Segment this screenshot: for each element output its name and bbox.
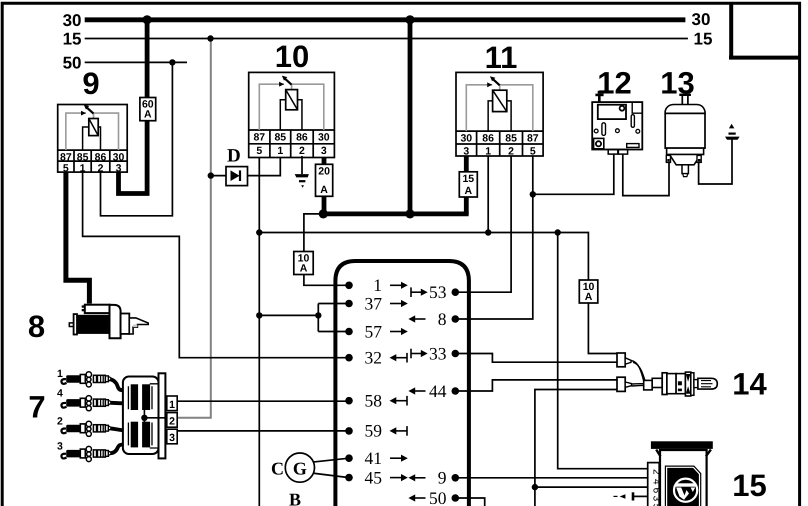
fuse 20A bbox=[316, 164, 333, 196]
svg-text:9: 9 bbox=[82, 66, 99, 101]
svg-text:58: 58 bbox=[365, 391, 383, 411]
svg-text:3: 3 bbox=[116, 162, 122, 174]
svg-text:C: C bbox=[271, 459, 284, 479]
svg-text:41: 41 bbox=[365, 448, 383, 468]
fuel pump 13 bbox=[665, 95, 705, 177]
bus 30 wire bbox=[85, 17, 686, 22]
generator signal G bbox=[285, 453, 349, 482]
svg-text:86: 86 bbox=[482, 132, 494, 144]
svg-text:D: D bbox=[227, 146, 241, 167]
wire ignition module pin 1 to ECU pin 58 bbox=[177, 400, 349, 402]
legend box top-right bbox=[729, 4, 800, 58]
wire relay 9 pin 85 to ECU pin 32 bbox=[83, 171, 349, 358]
svg-text:86: 86 bbox=[296, 131, 308, 143]
wire lambda heater return to connector 15 slot 6 bbox=[535, 390, 650, 506]
wire junction dots bbox=[169, 35, 561, 490]
ground (relay 10 pin 86) bbox=[295, 156, 309, 188]
wire feed to ECU pins 37 and 57 bbox=[259, 304, 349, 332]
svg-text:3: 3 bbox=[651, 496, 662, 502]
wire relay 9 pin 87 to starter motor bbox=[66, 171, 90, 304]
wire relay 11 pin 30 through fuse 15A to rail bbox=[464, 155, 469, 215]
ignition coil module 7 body bbox=[123, 373, 165, 458]
relay 10 (main injection relay) bbox=[249, 72, 335, 157]
wire ECU pin 33 to lambda sensor signal bbox=[455, 354, 617, 363]
ignition module coil windings bbox=[128, 384, 166, 448]
svg-text:59: 59 bbox=[365, 421, 383, 441]
svg-text:15: 15 bbox=[732, 468, 766, 503]
wire feed rail to connector 15 slot 2 bbox=[558, 233, 650, 469]
control unit 15 top banner bbox=[651, 441, 713, 449]
svg-text:11: 11 bbox=[485, 40, 518, 75]
svg-text:85: 85 bbox=[274, 131, 286, 143]
svg-text:1: 1 bbox=[373, 275, 382, 295]
svg-text:5: 5 bbox=[530, 145, 536, 157]
svg-text:6: 6 bbox=[651, 488, 662, 494]
wire ignition module pin 3 to ECU pin 59 bbox=[177, 430, 349, 432]
ECU pin 8 bbox=[408, 309, 459, 329]
svg-text:5: 5 bbox=[256, 145, 262, 157]
diode D bbox=[226, 167, 248, 186]
wire relay 11 pin 86 to feed rail bbox=[487, 155, 489, 233]
wire ECU pin 44 to lambda sensor signal return bbox=[455, 380, 617, 391]
svg-text:A: A bbox=[144, 109, 152, 121]
ignition module connector pin 1 bbox=[167, 396, 177, 411]
svg-text:1: 1 bbox=[169, 399, 175, 411]
svg-text:53: 53 bbox=[429, 282, 447, 302]
svg-text:2: 2 bbox=[508, 145, 514, 157]
svg-text:87: 87 bbox=[527, 132, 539, 144]
svg-text:33: 33 bbox=[429, 343, 447, 363]
svg-text:A: A bbox=[585, 291, 593, 303]
spark plug cylinder 4 bbox=[61, 396, 110, 411]
spark plug leads bbox=[109, 379, 124, 453]
svg-text:30: 30 bbox=[460, 132, 472, 144]
svg-text:30: 30 bbox=[692, 10, 711, 29]
svg-text:4: 4 bbox=[651, 479, 662, 485]
svg-text:30: 30 bbox=[63, 11, 82, 30]
control unit 15 body bbox=[656, 450, 711, 506]
svg-text:50: 50 bbox=[429, 488, 447, 506]
relay 11 (fuel pump relay) bbox=[456, 72, 543, 157]
lambda sensor 14 body bbox=[644, 372, 718, 396]
ignition module connector pin 3 bbox=[167, 429, 177, 444]
wire fuse 10A right to lambda heater terminal bbox=[588, 302, 617, 354]
fuse 10A (ECU supply) bbox=[294, 252, 313, 275]
wire relay 11 pin 85 to ECU pin 53 bbox=[455, 155, 511, 292]
thick wire junction dots bbox=[143, 15, 415, 218]
svg-text:3: 3 bbox=[463, 145, 469, 157]
ECU pin 1 bbox=[345, 275, 408, 295]
svg-text:15: 15 bbox=[462, 173, 474, 185]
svg-text:A: A bbox=[300, 262, 308, 274]
svg-text:B: B bbox=[289, 490, 301, 506]
spark plug cylinder 3 bbox=[61, 446, 110, 461]
ECU pin 58 bbox=[345, 391, 407, 411]
svg-text:45: 45 bbox=[365, 467, 383, 487]
wire relay 11 pin 87 to ECU pin 8 bbox=[455, 155, 533, 319]
wire bus30 central drop to supply rail bbox=[408, 20, 413, 214]
ECU pin 41 bbox=[345, 448, 408, 468]
fuse 60A bbox=[140, 98, 156, 121]
wire rail tap through fuse 10A left to ECU pin 1 bbox=[304, 214, 349, 285]
wire relay 10 pin 30 through fuse 20A to rail bbox=[322, 156, 327, 214]
svg-text:5: 5 bbox=[63, 162, 69, 174]
wire fuel pump 13 to ground bbox=[699, 139, 732, 184]
wire bus50 to relay 9 pin 86 bbox=[101, 62, 173, 215]
spark plug cylinder 1 bbox=[61, 372, 110, 387]
svg-text:37: 37 bbox=[365, 293, 383, 313]
svg-text:2: 2 bbox=[98, 162, 104, 174]
svg-text:A: A bbox=[465, 185, 473, 197]
ignition module connector pin 2 bbox=[167, 413, 177, 428]
svg-text:G: G bbox=[293, 458, 307, 478]
svg-text:32: 32 bbox=[365, 348, 383, 368]
ECU pin 57 bbox=[345, 321, 408, 341]
svg-text:15: 15 bbox=[63, 30, 82, 49]
wire ignition ECU 12 pin B to fuel pump 13 bbox=[623, 154, 669, 196]
lambda sensor 14 connector block upper bbox=[617, 353, 631, 367]
bus 50 wire bbox=[85, 61, 187, 63]
wire ECU pin 9 to connector 15 slot 4 bbox=[455, 477, 649, 479]
supply rail wire bbox=[323, 211, 468, 216]
ECU pin 53 bbox=[411, 282, 459, 302]
svg-text:13: 13 bbox=[660, 66, 694, 101]
bus 15 wire bbox=[85, 38, 688, 40]
svg-text:1: 1 bbox=[485, 145, 491, 157]
svg-text:57: 57 bbox=[365, 321, 383, 341]
svg-text:3: 3 bbox=[321, 145, 327, 157]
wire bus15 feed (gray) to diode and ignition module pin 2 bbox=[177, 39, 211, 418]
spark plug cylinder 2 bbox=[61, 421, 110, 436]
ECU pin 50 bbox=[408, 488, 459, 506]
wire bus30 to fuse 60A to relay 9 pin 30 bbox=[119, 20, 148, 194]
svg-text:3: 3 bbox=[57, 441, 63, 453]
svg-text:4: 4 bbox=[57, 388, 63, 400]
ECU pin 33 bbox=[411, 343, 459, 363]
fuse 10A (lambda heater) bbox=[579, 280, 598, 303]
svg-text:2: 2 bbox=[169, 415, 175, 427]
ECU pin 37 bbox=[345, 293, 408, 313]
svg-text:2: 2 bbox=[651, 469, 662, 475]
svg-text:14: 14 bbox=[732, 367, 767, 402]
svg-text:87: 87 bbox=[253, 131, 265, 143]
svg-text:2: 2 bbox=[57, 416, 63, 428]
ground (fuel pump circuit, top right) bbox=[725, 124, 740, 140]
svg-text:30: 30 bbox=[318, 131, 330, 143]
ECU connector M (engine control unit) bbox=[335, 261, 469, 506]
svg-text:12: 12 bbox=[597, 66, 631, 101]
svg-text:2: 2 bbox=[299, 145, 305, 157]
lambda sensor 14 harness wires bbox=[631, 361, 646, 387]
wire relay 10 pin 87 main feed (down) bbox=[258, 156, 260, 506]
wire relay 10 pin 87 feed rail to fuse 10A right bbox=[259, 233, 588, 282]
control unit 15 connector strip bbox=[648, 463, 662, 506]
ignition power module 12 bbox=[592, 91, 642, 154]
svg-text:1: 1 bbox=[57, 368, 63, 380]
wire ECU pin 50 down bbox=[455, 498, 484, 506]
svg-text:10: 10 bbox=[275, 39, 309, 74]
ECU pin 9 bbox=[408, 468, 459, 488]
svg-text:A: A bbox=[320, 184, 328, 196]
svg-text:1: 1 bbox=[80, 162, 86, 174]
svg-text:8: 8 bbox=[438, 309, 447, 329]
svg-text:1: 1 bbox=[277, 145, 283, 157]
svg-text:9: 9 bbox=[438, 468, 447, 488]
wire diode to relay 10 pin 85 bbox=[211, 156, 280, 176]
starter motor 8 bbox=[69, 305, 148, 339]
svg-text:3: 3 bbox=[169, 432, 175, 444]
svg-text:44: 44 bbox=[429, 381, 447, 401]
svg-text:85: 85 bbox=[505, 132, 517, 144]
svg-text:50: 50 bbox=[63, 53, 82, 72]
ECU pin 59 bbox=[345, 421, 407, 441]
ECU pin 45 bbox=[345, 467, 408, 487]
svg-text:7: 7 bbox=[28, 390, 45, 425]
connector 15 slot 3 stub wire bbox=[614, 492, 648, 500]
svg-text:15: 15 bbox=[694, 30, 713, 49]
fuse 15A bbox=[459, 172, 477, 197]
svg-text:20: 20 bbox=[318, 166, 330, 178]
relay 9 (starter relay) bbox=[58, 105, 128, 175]
svg-text:8: 8 bbox=[28, 309, 45, 344]
wire ignition ECU 12 pin A to relay 11 pin 87 node bbox=[533, 154, 614, 194]
ECU pin 32 bbox=[345, 348, 407, 368]
lambda sensor 14 connector block lower bbox=[617, 377, 632, 391]
ECU pin 44 bbox=[408, 381, 459, 401]
